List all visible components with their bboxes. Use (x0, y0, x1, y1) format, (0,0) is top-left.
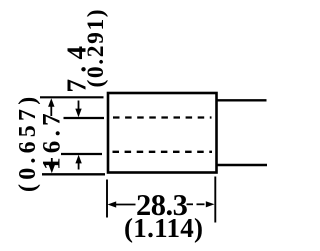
dim 28.3 right arrow (points right, dashed shaft) (187, 201, 215, 207)
dim 28.3 left arrow (points left) (108, 201, 136, 207)
svg-text:(0.291): (0.291) (83, 8, 109, 88)
svg-text:16.7: 16.7 (39, 109, 66, 170)
dim 16.7 upper arrow (up, at line A) (48, 98, 54, 116)
upper lead wire (217, 99, 267, 101)
dim 28.3 left extension line (106, 180, 108, 218)
extension line C (lower lead level, left) (61, 153, 102, 155)
svg-text:(0.657): (0.657) (15, 93, 41, 192)
dim 7.4 upper arrow (down, at line B) (75, 101, 81, 118)
hidden lead line (upper, dashed) (113, 116, 212, 118)
component body outline (108, 93, 217, 173)
dim 16.7 lower arrow (down, at line D) (49, 158, 55, 173)
extension line B (upper lead level, left) (64, 117, 105, 119)
extension line A (body top, left) (40, 96, 104, 98)
dim 28.3 right extension line (214, 177, 216, 223)
extension line D (body bottom, left) (42, 173, 105, 175)
svg-text:(1.114): (1.114) (124, 213, 203, 243)
lower lead wire (217, 164, 267, 166)
hidden lead line (lower, dashed) (113, 151, 213, 153)
dim 7.4 lower arrow (up, at line C) (75, 155, 81, 170)
